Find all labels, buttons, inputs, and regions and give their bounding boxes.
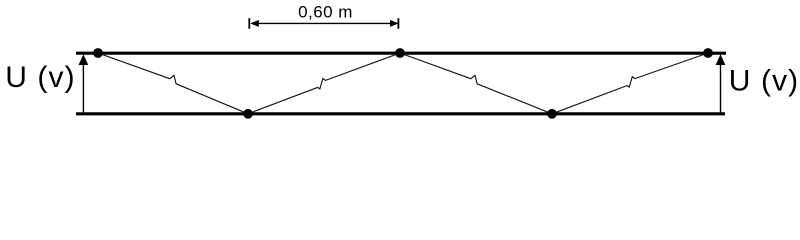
voltage label U (v) left — [5, 61, 75, 94]
resistor wire R1 — [98, 53, 248, 114]
dimension tick left — [248, 18, 250, 29]
resistor wire R4 — [552, 53, 708, 114]
dimension tick right — [397, 18, 399, 29]
bottom rail wire — [76, 112, 725, 115]
voltage label U (v) right — [729, 64, 799, 97]
svg-text:U (v): U (v) — [5, 61, 75, 94]
node C — [395, 48, 405, 58]
voltage arrow left — [79, 54, 89, 112]
svg-text:0,60 m: 0,60 m — [298, 3, 353, 22]
dimension line — [250, 20, 398, 27]
dimension label 0,60 m — [298, 3, 353, 22]
voltage arrow right — [716, 54, 726, 112]
resistor wire R3 — [400, 53, 552, 114]
node A — [93, 48, 103, 58]
svg-text:U (v): U (v) — [729, 64, 799, 97]
node E — [703, 48, 713, 58]
node D — [547, 109, 557, 119]
top rail wire — [76, 52, 726, 55]
node B — [243, 109, 253, 119]
resistor wire R2 — [248, 53, 400, 114]
